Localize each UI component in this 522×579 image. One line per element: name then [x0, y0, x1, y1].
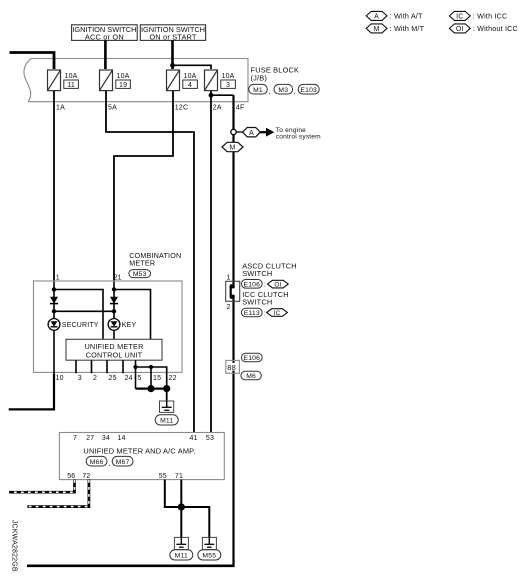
svg-text:E113: E113 — [244, 310, 260, 317]
connector oval M1 — [249, 84, 271, 95]
fuse F19 10A — [100, 70, 131, 91]
svg-text:10A: 10A — [222, 73, 235, 80]
connector oval M53 — [129, 270, 151, 279]
svg-text:,: , — [294, 89, 296, 96]
wire control unit pin 24 — [122, 360, 124, 373]
shielded wire pin 72 — [27, 480, 89, 507]
svg-text:E103: E103 — [300, 87, 317, 94]
diode D2 — [110, 297, 118, 304]
svg-text:E106: E106 — [244, 281, 261, 288]
junction dot key anode — [112, 309, 116, 313]
svg-text:METER: METER — [129, 259, 155, 268]
svg-text:10: 10 — [56, 375, 64, 382]
meter pin labels bottom — [56, 375, 177, 382]
svg-text:88: 88 — [227, 363, 236, 372]
wire key lamp to control unit — [113, 330, 115, 339]
connector oval M55 bottom — [198, 550, 221, 560]
svg-text::: : — [264, 310, 266, 317]
connector oval E113 (ICC) with IC hexagon — [241, 308, 287, 317]
junction dot pin5 top — [133, 365, 137, 369]
svg-text:(J/B): (J/B) — [251, 73, 268, 82]
junction dot on ignition ON feed — [170, 63, 175, 68]
ignition switch box 1 (ACC or ON) — [72, 25, 138, 42]
junction dot security anode — [52, 309, 56, 313]
svg-text:11: 11 — [67, 82, 75, 89]
wire key chain — [113, 282, 115, 319]
junction dot pin15 top — [149, 365, 153, 369]
svg-text:12C: 12C — [175, 104, 188, 111]
junction dot ground merge 22 — [163, 385, 170, 392]
svg-text:SWITCH: SWITCH — [242, 297, 272, 306]
fuse block (J/B) outline with wavy left edge — [24, 59, 248, 102]
legend hexagon OI : Without ICC — [449, 24, 517, 33]
svg-text::: : — [264, 282, 266, 289]
svg-text:A: A — [374, 13, 379, 20]
svg-text:SECURITY: SECURITY — [62, 322, 99, 329]
wire 4F: branch down right side to bottom — [211, 94, 234, 96]
wire bottom run to next sheet — [27, 564, 235, 567]
connector oval E103 — [298, 84, 319, 94]
svg-text:1A: 1A — [56, 104, 65, 111]
svg-text:25: 25 — [109, 375, 117, 382]
svg-text:1: 1 — [227, 275, 231, 282]
ground symbol near meter — [160, 401, 174, 412]
svg-text:M1: M1 — [253, 87, 263, 94]
svg-text:E106: E106 — [244, 355, 261, 362]
arrow to engine control system — [260, 127, 321, 141]
wire control unit pin 2 — [91, 360, 93, 373]
svg-text:KEY: KEY — [122, 322, 137, 329]
svg-text:53: 53 — [206, 435, 214, 442]
legend hexagon IC : With ICC — [449, 11, 507, 20]
svg-text:14: 14 — [117, 435, 125, 442]
ASCD/ICC clutch switch box — [226, 281, 240, 301]
svg-text:4: 4 — [188, 82, 192, 89]
svg-text:2A: 2A — [213, 104, 222, 111]
svg-text:ON or START: ON or START — [149, 32, 197, 41]
wire 5A: fuse 19 to amp pin 41 — [106, 91, 194, 433]
svg-text:M: M — [374, 26, 380, 33]
wire to ground M11 — [166, 389, 168, 401]
hexagon M on 4F wire — [222, 142, 243, 151]
wire amp pin 55 to grounds — [165, 480, 210, 538]
svg-text:ACC or ON: ACC or ON — [85, 32, 124, 41]
junction dot pin1 — [52, 287, 56, 291]
svg-text:A: A — [249, 130, 254, 137]
svg-text:56: 56 — [67, 473, 75, 480]
fuse block label FUSE BLOCK (J/B) — [251, 65, 300, 82]
svg-text:22: 22 — [169, 375, 177, 382]
svg-text:M11: M11 — [175, 553, 188, 560]
svg-text:5A: 5A — [108, 104, 117, 111]
wire 2A: fuse 3 to amp pin 53 — [210, 91, 212, 433]
svg-text:10A: 10A — [65, 73, 78, 80]
svg-text:: With M/T: : With M/T — [390, 24, 425, 33]
diode D1 — [50, 297, 58, 304]
svg-text:CONTROL UNIT: CONTROL UNIT — [86, 350, 143, 359]
KEY indicator lamp — [108, 319, 136, 331]
svg-text:55: 55 — [159, 473, 167, 480]
unified meter and A/C amp box — [59, 433, 224, 480]
svg-text:,: , — [268, 89, 270, 96]
wire pin21 branch to control unit — [114, 290, 151, 340]
connector oval M3 — [274, 84, 296, 95]
ignition switch box 2 (ON or START) — [140, 25, 205, 42]
shielded wire pin 56 — [9, 480, 74, 493]
svg-text:: Without ICC: : Without ICC — [473, 24, 518, 33]
wire control unit ground splits pins 5 15 22 — [135, 360, 137, 388]
ground symbol M55 (bottom) — [202, 537, 216, 549]
svg-text:72: 72 — [82, 473, 90, 480]
svg-text:SWITCH: SWITCH — [242, 269, 272, 278]
svg-text:41: 41 — [190, 435, 198, 442]
SECURITY indicator lamp — [48, 319, 99, 331]
svg-text:M3: M3 — [278, 87, 288, 94]
wire: battery feed to fuse 11 — [10, 53, 55, 70]
legend hexagon M : With M/T — [366, 24, 424, 33]
svg-text:34: 34 — [102, 435, 110, 442]
svg-text:M55: M55 — [202, 553, 216, 560]
amp pin labels bottom — [67, 473, 183, 480]
svg-text:: With A/T: : With A/T — [390, 11, 423, 20]
wire 1A: fuse 11 to combination meter pin 1 — [53, 91, 55, 282]
svg-text:control system: control system — [276, 133, 321, 140]
connector oval M6 (below 88) — [241, 371, 261, 380]
svg-text:M66: M66 — [90, 459, 104, 466]
svg-text:7: 7 — [73, 435, 77, 442]
wire 12C: fuse 4 to meter pin 21 — [114, 91, 173, 282]
connector circle on 4F wire — [231, 129, 236, 134]
ASCD clutch switch label — [242, 262, 297, 278]
fuse F4 10A — [167, 70, 198, 91]
svg-text:,: , — [108, 461, 110, 468]
svg-text:1: 1 — [56, 274, 60, 281]
svg-text:: With ICC: : With ICC — [473, 11, 508, 20]
fuse F11 10A — [48, 70, 79, 91]
svg-text:3: 3 — [78, 375, 82, 382]
svg-text:UNIFIED METER AND A/C AMP.: UNIFIED METER AND A/C AMP. — [83, 447, 195, 456]
wire meter pin 10 exit left — [9, 373, 54, 409]
connector 88 box — [226, 360, 240, 373]
svg-text:3: 3 — [226, 82, 230, 89]
svg-text:M11: M11 — [160, 418, 173, 425]
svg-text:M6: M6 — [246, 373, 256, 380]
unified meter control unit box — [66, 339, 162, 360]
wire to hexagon A — [236, 131, 242, 133]
wire amp pin 71 to ground — [180, 480, 182, 538]
connector oval E106 (above 88) — [241, 353, 262, 362]
ground symbol M11 (bottom) — [174, 537, 188, 549]
svg-text:M67: M67 — [116, 459, 130, 466]
svg-text:OI: OI — [456, 26, 464, 33]
svg-text:71: 71 — [175, 473, 183, 480]
svg-text:2: 2 — [93, 375, 97, 382]
svg-text:JCKWA2822GB: JCKWA2822GB — [10, 520, 17, 572]
svg-text:15: 15 — [153, 375, 161, 382]
svg-text:2: 2 — [227, 304, 231, 311]
connector oval E106 (ASCD) with OI hexagon — [241, 280, 288, 289]
svg-text:21: 21 — [114, 274, 122, 281]
svg-text:IC: IC — [274, 310, 281, 317]
junction dot pin21 — [112, 287, 116, 291]
wire: branch to fuse 3 — [173, 65, 212, 69]
wire security chain — [53, 282, 55, 319]
wire security lamp to pin 10 — [53, 330, 55, 373]
svg-text:10A: 10A — [184, 73, 197, 80]
legend hexagon A : With A/T — [366, 11, 423, 20]
combination meter label — [129, 251, 181, 267]
hexagon A (to engine control system) — [243, 128, 261, 137]
wire control unit pin 25 — [106, 360, 108, 373]
combination meter box — [34, 281, 183, 372]
junction dot ground merge 15 — [147, 385, 154, 392]
svg-text:IC: IC — [456, 13, 463, 20]
svg-text:M: M — [229, 145, 235, 152]
wire: ignition ON feed to fuse 4 — [171, 40, 174, 69]
wire pin1 branch to control unit — [54, 290, 103, 340]
svg-text:M53: M53 — [133, 271, 147, 278]
svg-text:24: 24 — [125, 375, 133, 382]
svg-text:10A: 10A — [117, 73, 130, 80]
connector oval M66 — [86, 456, 110, 467]
crossover wire between indicator anodes — [54, 310, 114, 312]
svg-text:19: 19 — [119, 82, 127, 89]
wire control unit pin 3 — [75, 360, 77, 373]
connector oval M67 — [112, 456, 133, 466]
wire ground merge below meter — [136, 388, 167, 390]
junction dot grounds — [178, 503, 185, 510]
wire: ignition ACC feed to fuse 19 — [104, 40, 107, 69]
junction dot below fuse 3 — [209, 93, 214, 98]
amp pin labels top — [73, 435, 214, 442]
svg-text:4F: 4F — [236, 104, 245, 111]
svg-text:27: 27 — [86, 435, 94, 442]
connector oval M11 (meter ground) — [155, 415, 178, 425]
svg-text:5: 5 — [137, 375, 141, 382]
fuse F3 10A — [205, 70, 236, 91]
ICC clutch switch label — [242, 290, 289, 306]
svg-text:OI: OI — [274, 281, 281, 288]
connector oval M11 bottom — [170, 550, 193, 560]
